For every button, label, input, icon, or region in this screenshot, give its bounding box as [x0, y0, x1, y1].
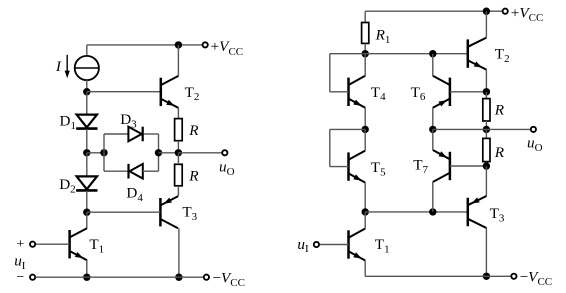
wire -Vcc rail (left): [35, 276, 206, 278]
wire T5 emitter: [364, 183, 366, 212]
label T1 (left): [89, 236, 104, 255]
transistor T6: [433, 76, 450, 108]
label D4: [126, 185, 143, 204]
wire -Vcc rail (right): [365, 275, 514, 277]
wire uO rail to R (right lower): [485, 129, 487, 138]
node T3 collector / -Vcc rail (right): [483, 273, 490, 280]
wire T5 base loop: [330, 129, 365, 166]
node D-bridge left: [100, 149, 107, 156]
wire T2 collector (left): [177, 45, 179, 76]
node T7 collector junction: [429, 208, 436, 215]
node D1/D2 junction: [83, 149, 90, 156]
wire mid rail left segment: [87, 152, 104, 154]
terminal input - (left): [30, 275, 35, 280]
label T7: [413, 156, 428, 175]
wire T4 base loop: [330, 54, 349, 92]
label R upper (left): [188, 122, 199, 139]
label -Vcc (left): [212, 269, 245, 289]
label T3 (right): [490, 205, 505, 224]
label D2: [59, 176, 75, 195]
svg-text:R: R: [494, 144, 505, 161]
wire T3 collector (left): [178, 228, 180, 277]
wire R upper to mid rail: [177, 141, 179, 153]
label D1: [60, 112, 76, 131]
diode D3: [128, 127, 142, 142]
label R lower (left): [188, 168, 199, 185]
wire T1 emitter (right): [364, 261, 366, 277]
terminal +Vcc (right): [503, 9, 508, 14]
wire T4 collector: [364, 54, 366, 76]
resistor R upper (left): [175, 119, 183, 141]
label T3 (left): [182, 204, 197, 223]
wire node to R (right upper): [485, 92, 487, 99]
wire T2 collector (right): [485, 11, 487, 37]
wire T3 emitter (right): [485, 166, 487, 196]
label uI (right): [297, 236, 309, 255]
terminal uI (right): [314, 242, 319, 247]
wire T6 collector: [432, 54, 434, 76]
node T2 emitter / R top / T6 base: [483, 88, 490, 95]
diode D1: [76, 115, 97, 129]
label + input: [16, 237, 24, 252]
wire mid rail middle segment: [159, 152, 179, 154]
terminal uO (left): [222, 150, 227, 155]
resistor R1: [362, 23, 369, 44]
svg-text:R: R: [494, 101, 505, 118]
wire mid rail to uO terminal: [178, 152, 224, 154]
transistor T2 (left): [161, 76, 179, 108]
label R upper (right): [494, 101, 505, 118]
label I: [55, 58, 62, 75]
label T4: [371, 84, 386, 103]
node T1 emitter / -Vcc rail: [83, 274, 90, 281]
wire T2 emitter (right): [485, 70, 487, 92]
wire T2 emitter (left): [177, 108, 179, 119]
wire uO rail (right): [433, 128, 534, 130]
label uI (left): [14, 252, 26, 271]
wire T1 base (right): [319, 244, 348, 246]
wire T2 base (left): [87, 91, 161, 93]
wire T1 base (left): [35, 243, 69, 245]
svg-text:+: +: [16, 237, 24, 252]
terminal uO (right): [531, 127, 536, 132]
wire node to D1: [86, 92, 88, 115]
node T3 collector / -Vcc rail: [175, 274, 182, 281]
terminal -Vcc (right): [511, 274, 516, 279]
label D3: [120, 111, 137, 130]
terminal -Vcc (left): [204, 275, 209, 280]
wire T6 emitter: [432, 108, 434, 130]
label +Vcc (left): [211, 38, 244, 58]
transistor T3 (right): [468, 196, 487, 228]
svg-text:−: −: [16, 270, 24, 285]
wire D3 anode wire: [104, 133, 128, 135]
node T2 collector junction (left): [175, 41, 182, 48]
label T2 (left): [185, 84, 200, 103]
wire +Vcc rail (right): [365, 10, 505, 12]
wire D1 to mid rail: [86, 129, 88, 153]
label uO (right): [527, 135, 543, 154]
node R1 / T4 collector: [362, 50, 369, 57]
transistor T1 (right): [349, 229, 366, 261]
terminal input + (left): [30, 242, 35, 247]
transistor T4: [349, 76, 366, 108]
wire R lower to T3 emitter: [177, 186, 179, 196]
wire D3 cathode wire: [144, 133, 159, 135]
current source I circle: [75, 56, 99, 80]
wire D4 cathode wire: [104, 170, 127, 172]
label uO (left): [219, 158, 235, 177]
resistor R lower (left): [175, 164, 183, 186]
wire D-bridge right side: [158, 134, 160, 171]
wire T3 base (left): [87, 211, 161, 213]
label +Vcc (right): [511, 4, 544, 24]
node T5 emitter / T1 collector: [362, 208, 369, 215]
wire R lower top: [177, 153, 179, 165]
wire T6 base: [450, 91, 487, 93]
svg-text:I: I: [55, 58, 62, 75]
node T6/T7 emitter junction: [429, 126, 436, 133]
diode D2: [76, 176, 97, 190]
wire T7 collector: [432, 182, 434, 212]
terminal +Vcc (left): [203, 42, 208, 47]
label T2 (right): [495, 46, 510, 65]
wire R1 top: [364, 11, 366, 22]
wire current source top: [86, 45, 88, 56]
resistor R lower (right): [483, 138, 490, 161]
node current source / T2 base / D1 (left): [83, 88, 90, 95]
node R bottom / T7 base / T3 emitter: [483, 162, 490, 169]
label T1 (right): [375, 236, 390, 255]
wire +Vcc rail (left): [87, 44, 205, 46]
wire D-bridge left side: [103, 134, 105, 171]
label - input: [16, 270, 24, 285]
transistor T2 (right): [468, 38, 487, 70]
wire T7 emitter: [432, 129, 434, 150]
wire T1 collector (right): [364, 212, 366, 229]
svg-text:R: R: [188, 168, 199, 185]
node D-bridge right: [155, 149, 162, 156]
wire D4 anode wire: [143, 170, 159, 172]
wire D1 junction to D2: [86, 153, 88, 177]
current source arrow: [65, 55, 70, 78]
resistor R upper (right): [483, 99, 490, 121]
wire R1 bottom: [364, 43, 366, 53]
diode D4: [129, 164, 143, 179]
label T5: [371, 159, 386, 178]
transistor T5: [349, 151, 366, 183]
wire R upper to uO rail: [485, 121, 487, 129]
wire R lower bottom: [485, 162, 487, 166]
wire D2 to T3 base node: [86, 191, 88, 212]
label R1: [375, 27, 391, 46]
wire T7 base: [450, 165, 487, 167]
svg-text:R: R: [188, 122, 199, 139]
wire lower node rail (right): [365, 211, 468, 213]
transistor T7: [433, 150, 450, 182]
wire T5 collector: [364, 129, 366, 150]
transistor T3 (left): [160, 196, 178, 228]
node T6 collector junction: [429, 50, 436, 57]
wire T1 emitter (left): [86, 260, 88, 277]
wire T3 collector (right): [485, 228, 487, 276]
node T2 collector junction (right): [483, 8, 490, 15]
wire T4 emitter: [364, 108, 366, 130]
node R junction (right): [483, 126, 490, 133]
label T6: [411, 84, 426, 103]
node T4 emitter / T5 collector: [362, 126, 369, 133]
node D2 / T1 collector / T3 base: [83, 209, 90, 216]
label -Vcc (right): [520, 269, 553, 289]
label R lower (right): [494, 144, 505, 161]
wire current source bottom: [86, 80, 88, 92]
node R junction (left): [175, 149, 182, 156]
wire base rail y53 (right): [330, 53, 468, 55]
wire T1 collector (left): [86, 212, 88, 228]
transistor T1 (left): [70, 228, 87, 260]
